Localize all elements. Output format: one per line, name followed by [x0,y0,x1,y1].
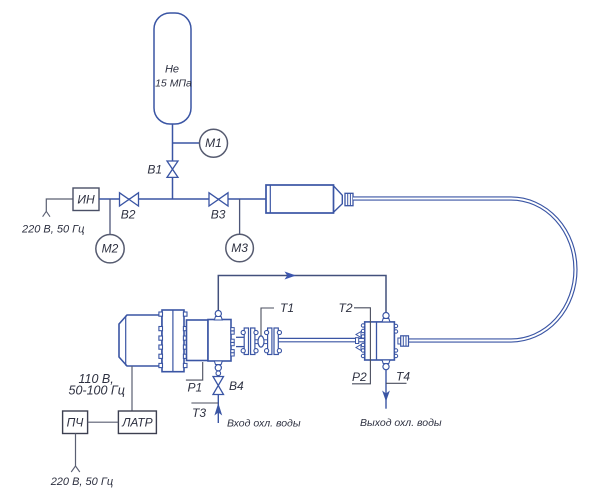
box PCh (ПЧ) [63,411,88,434]
svg-text:Выход охл. воды: Выход охл. воды [360,417,442,429]
manometer M3 [226,234,254,262]
vessel left edge nubs [361,324,364,358]
svg-text:В4: В4 [229,379,244,393]
compressor end cap [208,320,231,362]
leader P1 [186,362,203,380]
power lead 220V to IN box [46,199,73,211]
compressor flange stack [162,310,184,372]
wire M2 drop [109,199,111,235]
wire B1 to main pipe [172,177,174,199]
shaft gland at vessel [356,332,361,338]
vessel right edge nubs [394,324,397,357]
wire PCh to LATR [88,421,119,423]
manometer M2 [96,235,124,263]
svg-text:М3: М3 [231,241,248,255]
wire M3 drop [239,199,241,235]
vessel bottom fitting [382,360,390,364]
svg-text:М1: М1 [205,136,222,150]
shaft stub from end cap [236,336,244,338]
leader T4 [386,382,407,384]
top fitting on end cap [215,311,221,317]
shaft gland entry block [356,338,359,344]
compressor motor [119,315,162,366]
wire PCh down [75,434,77,467]
svg-text:Р2: Р2 [352,370,367,384]
svg-text:В1: В1 [147,163,162,177]
cooling water outlet line [385,370,387,409]
gas flow line with arrow [218,276,386,313]
valve B1 [167,161,178,177]
valve B2 [120,193,139,206]
coupling stub to disc [255,339,258,341]
svg-text:ПЧ: ПЧ [67,415,85,429]
shaft double line [279,337,364,339]
svg-text:Т1: Т1 [280,301,294,315]
flow arrowhead [285,272,297,280]
leader T3 [191,402,218,404]
inlet arrowhead up [214,403,222,416]
coupling left flange pair [244,328,248,355]
svg-text:Вход охл. воды: Вход охл. воды [227,418,301,430]
flange bolts right [183,312,187,368]
coupling right flange pair [268,328,272,355]
compressor cylinder body [187,320,209,361]
cooling water inlet line [217,395,219,424]
fitting nut at cylinder outlet [345,193,353,205]
plug chevron [43,211,50,216]
plug chevron bottom [71,466,80,472]
svg-text:Не: Не [165,64,179,76]
svg-text:15 МПа: 15 МПа [155,78,192,90]
leader T1 [261,308,274,336]
leader T2 and P2 shared vertical [352,308,370,384]
svg-text:В3: В3 [211,207,226,221]
svg-text:ЛАТР: ЛАТР [121,415,152,429]
adsorber cylinder [266,185,334,213]
test vessel T2 [365,322,395,360]
valve B3 [209,193,228,206]
bottom fitting on end cap [214,361,222,365]
wire M1 branch [173,142,200,144]
box LATR (ЛАТР) [118,411,156,434]
svg-text:Т4: Т4 [396,370,410,384]
box IN (ИН) [73,188,99,211]
capillary tube loop (double line) [353,199,575,341]
svg-text:220 В, 50 Гц: 220 В, 50 Гц [50,476,113,488]
manometer M1 [200,129,228,157]
svg-text:В2: В2 [121,207,136,221]
cylinder right taper [334,186,343,212]
svg-text:Т2: Т2 [339,301,353,315]
main pipe [99,198,266,200]
svg-text:50-100 Гц: 50-100 Гц [69,384,125,398]
coupling middle disc (T1 sensor) [258,336,264,347]
wire bottle outlet down [172,124,174,161]
cylinder left end cap line [269,185,271,213]
valve B4 [213,377,224,395]
vessel top fitting [383,313,389,319]
svg-text:Р1: Р1 [188,381,203,395]
gas bottle He 15 MPa [154,13,191,124]
svg-text:220 В, 50 Гц: 220 В, 50 Гц [21,224,84,236]
vessel right nut fitting [398,338,401,344]
wire motor to LATR [131,366,133,411]
svg-text:М2: М2 [102,242,119,256]
flange bolts left [159,312,163,368]
end cap bolts [231,328,234,356]
outlet arrowhead down [382,391,390,402]
svg-text:ИН: ИН [77,192,95,206]
svg-text:Т3: Т3 [192,406,206,420]
